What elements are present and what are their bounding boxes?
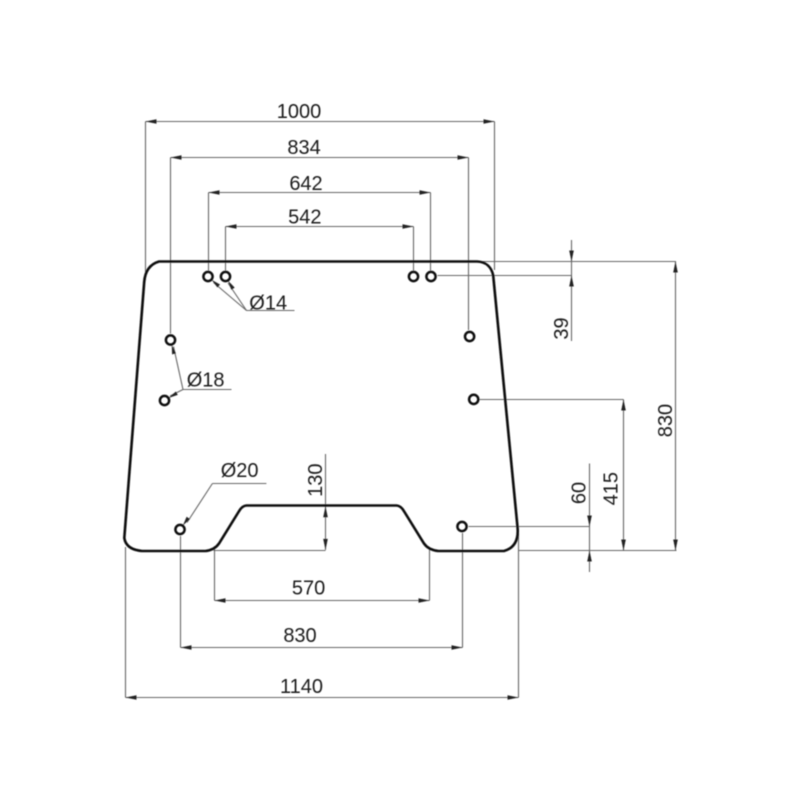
svg-text:542: 542 bbox=[288, 207, 321, 229]
svg-text:130: 130 bbox=[305, 464, 327, 497]
svg-text:60: 60 bbox=[569, 482, 591, 504]
svg-text:642: 642 bbox=[289, 173, 322, 195]
svg-text:Ø18: Ø18 bbox=[187, 370, 225, 392]
svg-text:1000: 1000 bbox=[277, 101, 322, 123]
svg-text:834: 834 bbox=[287, 137, 320, 159]
svg-text:830: 830 bbox=[655, 404, 677, 437]
svg-text:Ø14: Ø14 bbox=[249, 293, 287, 315]
svg-text:415: 415 bbox=[601, 472, 623, 505]
svg-text:570: 570 bbox=[292, 577, 325, 599]
svg-text:39: 39 bbox=[551, 317, 573, 339]
svg-text:830: 830 bbox=[283, 625, 316, 647]
svg-text:Ø20: Ø20 bbox=[221, 460, 259, 482]
svg-text:1140: 1140 bbox=[280, 676, 323, 698]
